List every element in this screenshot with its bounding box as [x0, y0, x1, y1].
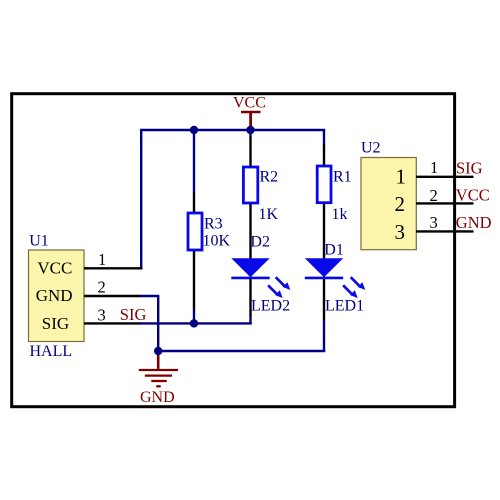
svg-text:VCC: VCC — [37, 258, 72, 277]
svg-text:LED2: LED2 — [251, 298, 290, 315]
svg-text:3: 3 — [98, 305, 106, 324]
svg-text:SIG: SIG — [42, 314, 69, 333]
svg-text:1: 1 — [430, 158, 438, 177]
svg-text:SIG: SIG — [456, 158, 483, 177]
svg-text:R1: R1 — [333, 169, 352, 186]
svg-text:R3: R3 — [204, 215, 223, 232]
svg-text:LED1: LED1 — [325, 298, 364, 315]
svg-text:D1: D1 — [324, 242, 344, 259]
svg-text:U2: U2 — [361, 139, 381, 156]
svg-text:VCC: VCC — [456, 185, 490, 204]
svg-text:1: 1 — [396, 164, 407, 188]
svg-text:R2: R2 — [260, 169, 279, 186]
svg-text:D2: D2 — [250, 233, 270, 250]
svg-text:2: 2 — [395, 192, 406, 216]
svg-text:SIG: SIG — [120, 305, 147, 324]
svg-text:1k: 1k — [332, 206, 348, 223]
svg-text:3: 3 — [430, 213, 438, 232]
svg-text:1K: 1K — [259, 206, 279, 223]
svg-text:HALL: HALL — [30, 343, 73, 360]
svg-text:3: 3 — [395, 220, 406, 244]
svg-text:GND: GND — [140, 389, 175, 406]
svg-text:U1: U1 — [29, 233, 49, 250]
svg-text:10K: 10K — [203, 232, 231, 249]
svg-text:2: 2 — [430, 186, 438, 205]
svg-text:GND: GND — [456, 213, 492, 232]
svg-text:VCC: VCC — [233, 95, 266, 112]
svg-text:GND: GND — [36, 286, 73, 305]
svg-text:2: 2 — [98, 277, 106, 296]
svg-text:1: 1 — [98, 250, 106, 269]
